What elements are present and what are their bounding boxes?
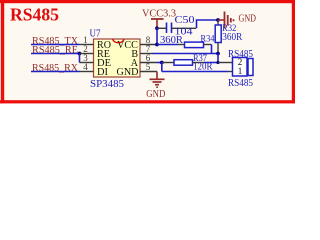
pin 6 A	[140, 62, 157, 64]
wire	[197, 20, 219, 28]
wire	[31, 53, 80, 55]
wire	[204, 62, 218, 64]
wire	[31, 71, 80, 73]
svg-text:GND: GND	[117, 67, 139, 78]
resistor R32	[215, 20, 242, 54]
svg-text:GND: GND	[146, 89, 165, 100]
wire	[157, 44, 178, 46]
svg-text:SP3485: SP3485	[90, 78, 124, 90]
pin 3 DE	[80, 62, 94, 64]
wire	[79, 54, 81, 63]
junction	[216, 61, 219, 64]
capacitor C50	[157, 14, 196, 38]
svg-text:U7: U7	[90, 29, 101, 40]
wire	[152, 53, 218, 55]
no-ERC marker	[113, 39, 125, 43]
power symbol GND top right	[218, 12, 256, 29]
pin 7 B	[140, 53, 152, 55]
svg-text:4: 4	[83, 62, 88, 72]
svg-text:C50: C50	[175, 14, 196, 26]
svg-text:DI: DI	[97, 67, 108, 78]
wire	[211, 45, 213, 54]
junction	[155, 43, 159, 47]
junction	[155, 26, 159, 30]
sheet background	[0, 0, 298, 107]
resistor R37	[162, 54, 213, 73]
power symbol GND bottom	[146, 72, 165, 100]
pin 2 RE	[80, 53, 94, 55]
resistor R34	[160, 35, 215, 48]
power symbol VCC3.3	[142, 9, 176, 29]
connector P8 RS485	[218, 49, 253, 89]
pin 8 VCC	[140, 44, 157, 46]
svg-text:RS485: RS485	[10, 5, 59, 25]
svg-text:GND: GND	[239, 14, 257, 25]
svg-text:VCC3.3: VCC3.3	[142, 9, 176, 20]
junction	[216, 18, 220, 22]
pin 1 RO	[80, 44, 94, 46]
svg-text:1: 1	[238, 66, 243, 76]
junction	[78, 52, 82, 56]
pin 4 DI	[80, 71, 94, 73]
wire	[162, 71, 228, 73]
svg-text:360R: 360R	[222, 32, 242, 43]
IC U7 SP3485	[80, 29, 158, 91]
junction	[216, 52, 220, 56]
wire	[217, 54, 219, 63]
svg-text:RS485: RS485	[228, 78, 253, 89]
wire	[157, 62, 162, 64]
junction	[160, 61, 164, 65]
wire	[31, 44, 80, 46]
wire	[156, 28, 158, 44]
pin 5 GND	[140, 71, 157, 73]
svg-text:5: 5	[146, 62, 151, 72]
svg-text:R34: R34	[201, 35, 215, 45]
wire	[161, 63, 163, 72]
svg-text:360R: 360R	[160, 35, 183, 46]
IC body	[94, 39, 141, 77]
